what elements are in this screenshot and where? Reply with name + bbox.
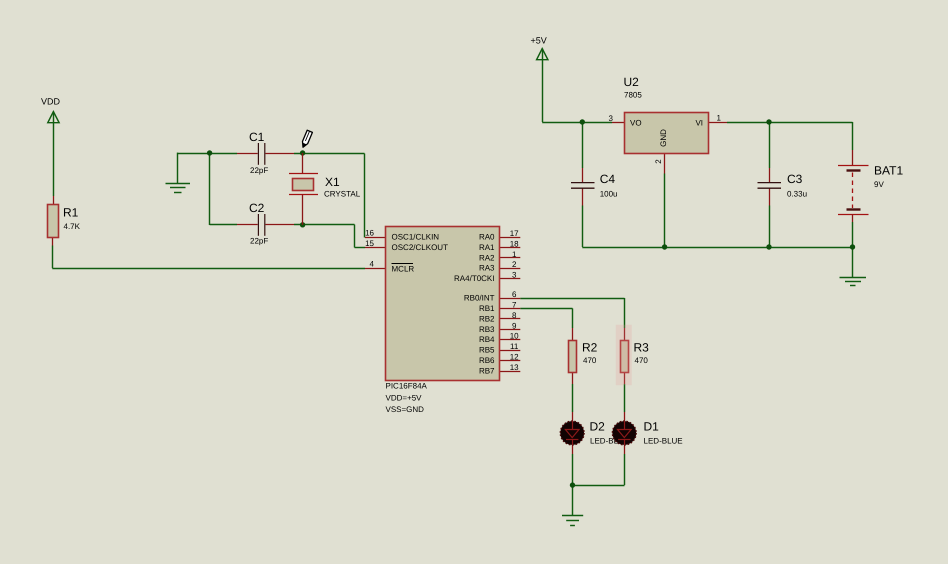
svg-text:D1: D1: [644, 420, 660, 434]
svg-text:C4: C4: [600, 172, 616, 186]
svg-text:RB4: RB4: [479, 335, 495, 344]
svg-text:7805: 7805: [624, 91, 642, 100]
svg-text:LED-BLUE: LED-BLUE: [644, 437, 683, 446]
svg-text:RB3: RB3: [479, 325, 495, 334]
svg-text:OSC2/CLKOUT: OSC2/CLKOUT: [392, 243, 449, 252]
svg-text:100u: 100u: [600, 190, 618, 199]
svg-text:RA3: RA3: [479, 264, 495, 273]
svg-text:C2: C2: [249, 201, 265, 215]
svg-text:RB2: RB2: [479, 314, 495, 323]
svg-text:1: 1: [717, 114, 722, 123]
svg-text:R2: R2: [582, 341, 598, 355]
svg-text:4: 4: [370, 260, 375, 269]
svg-text:2: 2: [654, 159, 663, 164]
svg-text:3: 3: [609, 114, 614, 123]
svg-text:470: 470: [635, 356, 649, 365]
svg-text:12: 12: [510, 353, 519, 362]
svg-text:R3: R3: [634, 341, 650, 355]
svg-text:D2: D2: [590, 420, 606, 434]
svg-text:C3: C3: [787, 172, 803, 186]
svg-text:0.33u: 0.33u: [787, 190, 807, 199]
svg-text:GND: GND: [659, 129, 668, 147]
svg-text:13: 13: [510, 363, 519, 372]
svg-text:22pF: 22pF: [250, 166, 268, 175]
svg-text:X1: X1: [325, 175, 340, 189]
svg-text:RB7: RB7: [479, 367, 495, 376]
svg-text:BAT1: BAT1: [874, 164, 903, 178]
svg-text:15: 15: [365, 239, 374, 248]
svg-text:6: 6: [512, 290, 517, 299]
svg-text:VI: VI: [695, 119, 703, 128]
svg-text:9: 9: [512, 321, 517, 330]
svg-text:22pF: 22pF: [250, 237, 268, 246]
svg-text:16: 16: [365, 229, 374, 238]
svg-text:RB0/INT: RB0/INT: [464, 294, 495, 303]
svg-text:VO: VO: [630, 119, 642, 128]
svg-text:RA2: RA2: [479, 253, 495, 262]
svg-text:RB1: RB1: [479, 304, 495, 313]
svg-text:RA0: RA0: [479, 233, 495, 242]
svg-text:4.7K: 4.7K: [64, 222, 81, 231]
svg-text:+5V: +5V: [531, 36, 547, 46]
svg-text:PIC16F84A: PIC16F84A: [386, 382, 428, 391]
svg-text:VDD=+5V: VDD=+5V: [386, 394, 423, 403]
svg-text:17: 17: [510, 229, 519, 238]
svg-text:18: 18: [510, 239, 519, 248]
svg-text:RB6: RB6: [479, 356, 495, 365]
svg-text:8: 8: [512, 311, 517, 320]
svg-text:RB5: RB5: [479, 346, 495, 355]
svg-text:9V: 9V: [874, 180, 884, 189]
svg-text:VDD: VDD: [41, 97, 61, 107]
svg-text:11: 11: [510, 342, 519, 351]
svg-text:R1: R1: [63, 206, 79, 220]
svg-text:2: 2: [512, 260, 517, 269]
svg-text:3: 3: [512, 271, 517, 280]
svg-text:RA4/T0CKI: RA4/T0CKI: [454, 274, 494, 283]
svg-text:U2: U2: [624, 75, 640, 89]
svg-text:OSC1/CLKIN: OSC1/CLKIN: [392, 233, 440, 242]
svg-text:1: 1: [512, 250, 517, 259]
svg-text:7: 7: [512, 300, 517, 309]
svg-text:10: 10: [510, 332, 519, 341]
svg-text:470: 470: [583, 356, 597, 365]
svg-text:RA1: RA1: [479, 243, 495, 252]
svg-text:C1: C1: [249, 130, 265, 144]
svg-text:MCLR: MCLR: [392, 264, 415, 273]
svg-text:CRYSTAL: CRYSTAL: [324, 190, 361, 199]
svg-text:VSS=GND: VSS=GND: [386, 405, 425, 414]
